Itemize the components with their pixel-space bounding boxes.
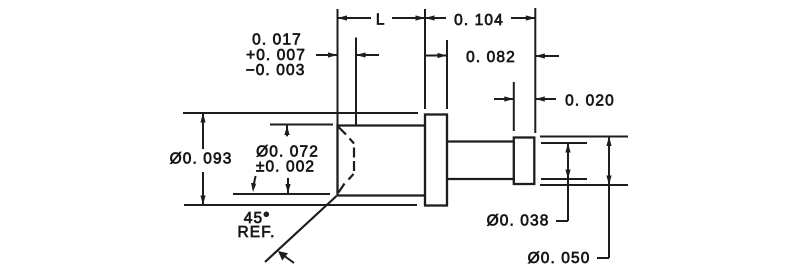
collar outline — [514, 138, 535, 185]
extension line body bottom (0.072 bottom) — [233, 193, 330, 195]
arrowhead 0.104 right — [526, 15, 536, 20]
dimension 0.072 up arrow tail — [286, 126, 288, 137]
45 deg chamfer reference line — [265, 196, 337, 262]
arrowhead 45 deg leader — [278, 251, 288, 261]
dimension 0.082 right tail — [535, 55, 559, 57]
dimension 0.104 right tail — [511, 17, 535, 19]
arrowhead 0.020 right — [535, 96, 545, 101]
extension line body top (0.072 top) — [270, 124, 333, 126]
svg-text:0. 017: 0. 017 — [252, 32, 302, 49]
extension line flange top (0.093 top) — [183, 112, 418, 114]
bore chamfer hidden line lower diagonal — [339, 174, 354, 193]
svg-text:0. 104: 0. 104 — [454, 12, 504, 29]
dimension 0.017 right tail — [356, 54, 379, 56]
extension line flange right (0.082 left) — [446, 40, 448, 109]
body barrel outline — [338, 126, 426, 196]
arrowhead 0.082 left — [438, 53, 448, 58]
arrowhead 0.082 right — [535, 53, 545, 58]
arrowhead 0.038 up — [565, 143, 570, 153]
arrowhead 0.017 right — [356, 52, 366, 57]
arrowhead L left — [338, 15, 348, 20]
arrowhead 0.104 left — [425, 15, 435, 20]
degree dot of 45 — [264, 212, 270, 218]
svg-text:REF.: REF. — [238, 224, 276, 241]
dimension 0.050 vertical line — [608, 137, 610, 259]
dimension 0.017 left tail — [316, 54, 338, 56]
dimension 0.093 vertical line lower part — [202, 172, 204, 205]
arrowhead 0.072 up — [284, 126, 289, 136]
extension line collar right (0.104 / 0.082 / 0.020 right) — [534, 8, 536, 133]
extension line shaft bottom right (0.038 bottom) — [541, 178, 587, 180]
svg-text:0. 020: 0. 020 — [565, 92, 615, 109]
svg-text:Ø0. 038: Ø0. 038 — [487, 213, 550, 230]
arrowhead 0.020 left — [504, 96, 514, 101]
arrowhead 0.038 down — [565, 170, 570, 180]
extension line left face (L left / 0.017 left) — [337, 9, 339, 125]
extension line flange left (L right / 0.104 left) — [424, 9, 426, 109]
svg-text:0. 082: 0. 082 — [466, 49, 516, 66]
dimension 0.038 label elbow — [556, 220, 568, 222]
dimension 0.050 label elbow — [597, 257, 609, 259]
dimension L right tail — [392, 17, 425, 19]
extension line flange bottom (0.093 bottom) — [184, 204, 417, 206]
arrowhead 0.093 up — [200, 113, 205, 123]
dimension L left tail — [338, 17, 372, 19]
svg-text:−0. 003: −0. 003 — [246, 62, 306, 79]
svg-text:L: L — [376, 12, 386, 29]
arrowhead 0.050 up — [606, 137, 611, 147]
dimension 0.020 right tail — [535, 98, 556, 100]
svg-text:Ø0. 093: Ø0. 093 — [170, 151, 233, 168]
arrowhead 0.050 down — [606, 176, 611, 186]
extension line collar top right (0.050 top) — [540, 136, 628, 138]
dimension 0.093 vertical line upper part — [202, 113, 204, 149]
extension line bore edge (0.017 right) — [355, 38, 357, 126]
svg-text:±0. 002: ±0. 002 — [256, 159, 315, 176]
arrowhead 0.072 down right — [285, 184, 290, 194]
dimension 0.072 down arrow tail right — [287, 178, 289, 194]
arrowhead 0.093 down — [200, 196, 205, 206]
bore chamfer hidden line upper diagonal — [339, 127, 355, 144]
shaft top line — [447, 140, 514, 142]
arrowhead L right — [416, 15, 426, 20]
dimension 0.038 vertical line — [567, 143, 569, 221]
svg-text:Ø0. 050: Ø0. 050 — [528, 250, 591, 267]
dimension 0.020 left tail — [494, 98, 514, 100]
extension line shaft top right (0.038 top) — [541, 142, 587, 144]
dimension 0.072 down arrow tail left (slanted) — [253, 176, 255, 187]
arrowhead 0.017 left — [328, 52, 338, 57]
bore hidden line vertical — [353, 148, 355, 172]
dimension 0.082 left tail — [426, 55, 447, 57]
arrowhead 0.072 down left — [251, 183, 256, 192]
45 deg leader arrow tail — [281, 254, 294, 264]
extension line collar bottom right (0.050 bottom) — [540, 184, 628, 186]
extension line collar left (0.020 left) — [513, 82, 515, 131]
shaft bottom line — [447, 178, 514, 180]
flange outline — [425, 115, 447, 206]
dimension 0.104 left tail — [425, 17, 446, 19]
